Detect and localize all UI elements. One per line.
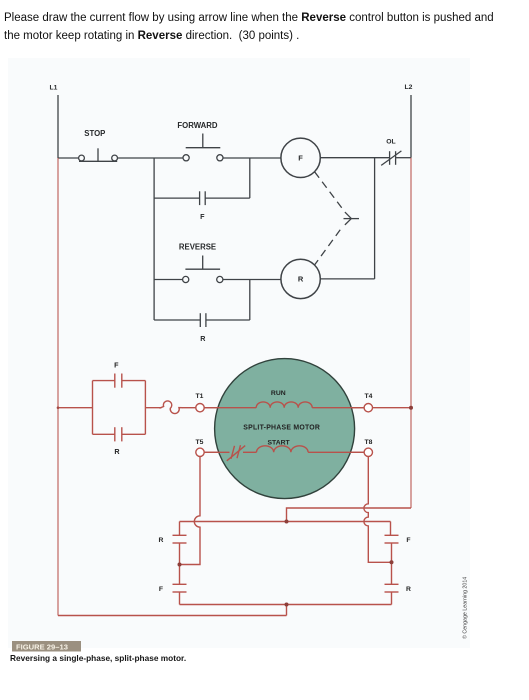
svg-text:OL: OL: [386, 139, 395, 146]
wire bottom: [58, 615, 287, 617]
svg-text:START: START: [268, 440, 291, 447]
interlock dashed linkage: [315, 172, 359, 265]
coil F: [281, 138, 320, 177]
winding RUN: [256, 402, 312, 408]
svg-text:© Cengage Learning 2014: © Cengage Learning 2014: [462, 577, 469, 639]
pushbutton FORWARD: [183, 134, 223, 161]
wire T1 to RUN: [204, 407, 256, 409]
svg-text:R: R: [114, 447, 120, 456]
contact column left: [173, 522, 187, 605]
winding RUN over motor: [204, 407, 256, 409]
svg-text:R: R: [159, 537, 164, 544]
contact F holding: [154, 158, 250, 205]
svg-text:T4: T4: [365, 393, 373, 400]
svg-text:STOP: STOP: [84, 129, 105, 138]
labels control circuit: [50, 84, 413, 343]
svg-text:FIGURE 29–13: FIGURE 29–13: [16, 643, 68, 652]
svg-text:R: R: [298, 275, 304, 284]
terminal T1: [196, 404, 204, 412]
junction dots: [57, 406, 413, 607]
wire T1 row left: [58, 407, 93, 409]
svg-text:the motor keep rotating in Rev: the motor keep rotating in Reverse direc…: [4, 30, 299, 42]
pushbutton STOP: [79, 148, 118, 161]
svg-text:R: R: [200, 334, 206, 343]
svg-text:L1: L1: [50, 85, 58, 92]
wire R rung to OL: [320, 158, 374, 279]
svg-text:RUN: RUN: [271, 390, 286, 397]
wire RUN to T4: [312, 407, 364, 409]
terminal T5: [196, 448, 204, 456]
wire T4 to rail: [373, 407, 412, 409]
wire T5 to switch: [204, 451, 229, 453]
rail L1: [57, 95, 59, 158]
motor SPLIT-PHASE: [215, 359, 355, 499]
labels power circuit: [114, 360, 411, 593]
wire switch to START: [243, 451, 257, 453]
terminal T8: [364, 448, 372, 456]
svg-text:REVERSE: REVERSE: [179, 242, 216, 251]
winding START over motor: [204, 451, 229, 453]
svg-text:SPLIT-PHASE MOTOR: SPLIT-PHASE MOTOR: [243, 424, 320, 431]
svg-text:F: F: [200, 212, 205, 221]
svg-text:T1: T1: [196, 393, 204, 400]
svg-text:L2: L2: [405, 84, 413, 91]
wire heater to T1: [182, 407, 196, 409]
page tint over diagram area: [8, 58, 470, 648]
wire node row: [180, 521, 391, 523]
svg-text:F: F: [406, 537, 410, 544]
wire right rail elbow to node: [287, 508, 412, 522]
rail left red: [57, 158, 59, 616]
pushbutton REVERSE: [154, 256, 281, 283]
svg-text:R: R: [406, 586, 411, 593]
wire main rung segments: [58, 157, 79, 159]
contact column right: [385, 522, 399, 605]
coil R: [281, 259, 320, 298]
svg-text:F: F: [298, 154, 303, 163]
svg-text:F: F: [159, 586, 163, 593]
overload contact OL: [381, 151, 401, 166]
svg-text:FORWARD: FORWARD: [177, 121, 218, 130]
wire box to heater: [145, 407, 161, 409]
rail right red: [410, 158, 412, 508]
winding START: [257, 446, 309, 452]
wire T5 down with hop: [180, 457, 201, 565]
svg-text:Reversing a single-phase, spli: Reversing a single-phase, split-phase mo…: [10, 653, 186, 663]
rail L2: [410, 95, 412, 158]
wire T8 down with hops: [364, 457, 392, 563]
svg-text:T5: T5: [196, 439, 204, 446]
centrifugal switch: [227, 445, 245, 461]
contact R holding: [154, 280, 250, 328]
svg-text:T8: T8: [365, 439, 373, 446]
wire branch vertical left: [153, 158, 155, 320]
contact box F/R: [93, 374, 146, 442]
heater element: [160, 401, 183, 414]
figure label box: [12, 641, 81, 652]
svg-text:F: F: [114, 360, 119, 369]
svg-text:Please draw the current flow b: Please draw the current flow by using ar…: [4, 12, 494, 24]
terminal T4: [364, 404, 372, 412]
wire START to T8: [308, 451, 364, 453]
